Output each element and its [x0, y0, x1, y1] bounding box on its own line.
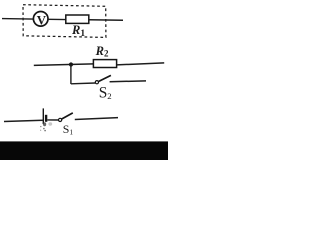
resistor R1	[66, 15, 89, 23]
dashed enclosure box around V and R1	[23, 5, 106, 38]
wire battery to S1	[47, 119, 58, 121]
switch S2	[95, 75, 111, 83]
voltmeter V	[33, 11, 48, 27]
battery cell	[40, 108, 52, 131]
wire voltmeter to R1	[48, 18, 66, 20]
junction node dot	[69, 62, 73, 66]
wire row2 left segment	[34, 64, 94, 66]
wire to switch S2	[71, 82, 95, 85]
wire right of S1	[75, 118, 118, 120]
bottom black bar	[0, 141, 168, 160]
switch S1	[59, 113, 73, 122]
svg-text:V: V	[37, 13, 47, 27]
wire R1 to right end	[89, 19, 123, 22]
resistor R2	[93, 60, 116, 68]
wire left lead to voltmeter	[2, 18, 33, 21]
wire row3 left lead	[4, 120, 43, 121]
wire junction drop	[70, 65, 72, 85]
wire right of S2	[110, 80, 146, 83]
wire R2 to right end	[117, 63, 165, 65]
